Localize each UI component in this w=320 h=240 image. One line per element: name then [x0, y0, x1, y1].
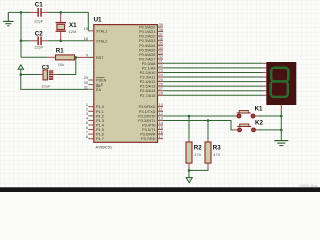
- wire K2 to ground rail: [258, 129, 281, 131]
- wire P3.3 to K2 (with jog): [163, 121, 233, 130]
- svg-text:C1: C1: [35, 1, 43, 8]
- value 10uF (C3): [41, 84, 51, 89]
- capacitor C3 (electrolytic): [40, 70, 57, 80]
- wire ground rail to R1: [21, 56, 48, 58]
- node junction C1/X1 (65,12.4): [59, 11, 62, 14]
- push button K2: [233, 124, 258, 132]
- svg-text:P3.2/INT0: P3.2/INT0: [138, 114, 155, 118]
- node junction C2/X1 (60.7,40.8): [59, 40, 62, 43]
- capacitor C2: [30, 37, 48, 46]
- svg-text:P0.2/AD2: P0.2/AD2: [139, 35, 155, 39]
- svg-text:12M: 12M: [69, 29, 77, 34]
- svg-text:R3: R3: [213, 144, 221, 151]
- svg-text:3: 3: [86, 112, 88, 116]
- svg-text:P2.3/A11: P2.3/A11: [140, 76, 155, 80]
- node junction R1/C3 (75.8,57.4): [75, 56, 78, 59]
- svg-text:XTAL1: XTAL1: [96, 29, 107, 33]
- svg-text:X1: X1: [69, 22, 77, 29]
- wire P3.2 to K1: [163, 115, 235, 117]
- svg-text:38: 38: [159, 28, 163, 32]
- svg-text:P1.4: P1.4: [96, 123, 104, 127]
- U1 left pin numbers: [84, 27, 88, 139]
- power symbol VCC (arrow up): [18, 65, 23, 75]
- svg-text:17: 17: [159, 135, 163, 139]
- wire vertical ground rail x=21: [20, 12, 22, 57]
- svg-text:2: 2: [86, 107, 88, 111]
- wire K1 to ground rail: [258, 115, 282, 117]
- 7-segment digit segments: [271, 68, 289, 97]
- value 470 (R3): [213, 152, 220, 157]
- resistor R3: [205, 139, 211, 168]
- svg-text:AT89C51: AT89C51: [96, 144, 113, 149]
- label C1: [35, 1, 43, 8]
- svg-text:36: 36: [159, 37, 163, 41]
- svg-text:R1: R1: [56, 48, 64, 55]
- node junction VCC/C3 (20.8,74.5): [20, 73, 23, 76]
- label AT89C51: [96, 144, 113, 149]
- IC U1 AT89C51 body: [94, 25, 158, 143]
- svg-text:4: 4: [86, 117, 88, 121]
- node junction at (21,40.8): [20, 40, 23, 43]
- svg-text:37: 37: [159, 32, 163, 36]
- svg-text:P3.3/INT1: P3.3/INT1: [138, 119, 155, 123]
- svg-text:21: 21: [159, 60, 163, 64]
- svg-text:P2.4/A12: P2.4/A12: [140, 80, 156, 84]
- svg-text:22pF: 22pF: [34, 19, 44, 24]
- svg-text:16: 16: [159, 130, 163, 134]
- svg-text:14: 14: [159, 121, 163, 125]
- svg-text:6: 6: [86, 126, 88, 130]
- svg-text:33: 33: [159, 51, 163, 55]
- svg-text:ALE: ALE: [96, 83, 104, 87]
- value 12M (X1): [69, 29, 77, 34]
- svg-text:P1.7: P1.7: [96, 137, 104, 141]
- svg-text:P0.5/AD5: P0.5/AD5: [139, 48, 155, 52]
- svg-text:P2.7/A15: P2.7/A15: [140, 94, 156, 98]
- display common pin to ground: [280, 105, 282, 140]
- wire C2 left stub rail: [21, 40, 30, 42]
- ground (bottom-right): [274, 141, 288, 146]
- value 22pF (C2): [34, 44, 44, 49]
- svg-text:10: 10: [159, 103, 163, 107]
- svg-text:P1.6: P1.6: [96, 133, 104, 137]
- wire R2 bottom to ground arrow: [188, 168, 190, 177]
- svg-text:35: 35: [159, 41, 163, 45]
- svg-text:30: 30: [84, 81, 88, 85]
- wire C2 right to XTAL2: [48, 40, 89, 42]
- svg-text:P3.0/RXD: P3.0/RXD: [139, 105, 156, 109]
- svg-text:C2: C2: [35, 31, 43, 38]
- svg-text:29: 29: [84, 76, 88, 80]
- svg-text:18: 18: [84, 37, 88, 41]
- svg-text:K1: K1: [255, 106, 263, 113]
- svg-text:22pF: 22pF: [34, 44, 44, 49]
- svg-text:26: 26: [159, 82, 163, 86]
- svg-text:P0.0/AD0: P0.0/AD0: [139, 26, 155, 30]
- svg-text:39: 39: [159, 23, 163, 27]
- svg-text:P1.0: P1.0: [96, 105, 104, 109]
- svg-text:P2.6/A14: P2.6/A14: [140, 89, 156, 93]
- wire VCC down to EA: [21, 75, 89, 90]
- node junction K1/ground rail: [280, 115, 283, 118]
- label R3: [213, 144, 221, 151]
- wire VCC junction to C3 left: [21, 74, 40, 76]
- svg-text:19: 19: [84, 27, 88, 31]
- label K1: [255, 106, 263, 113]
- label K2: [255, 120, 263, 127]
- svg-text:P0.4/AD4: P0.4/AD4: [139, 44, 155, 48]
- svg-text:XTAL2: XTAL2: [96, 39, 107, 43]
- svg-text:RST: RST: [96, 56, 104, 60]
- wire C1 right to XTAL1 corner: [48, 12, 88, 30]
- wire R1 junction down to C3: [57, 57, 76, 74]
- svg-text:470: 470: [213, 152, 220, 157]
- svg-text:P0.6/AD6: P0.6/AD6: [139, 53, 155, 57]
- svg-text:P0.1/AD1: P0.1/AD1: [139, 30, 155, 34]
- display pin stubs: [263, 63, 267, 95]
- U1 right pin labels: [138, 26, 155, 142]
- label U1: [94, 16, 102, 23]
- svg-text:P2.2/A10: P2.2/A10: [140, 71, 156, 75]
- svg-text:P3.5/T1: P3.5/T1: [142, 128, 155, 132]
- svg-text:PSEN: PSEN: [96, 79, 107, 83]
- svg-text:27: 27: [159, 87, 163, 91]
- svg-text:P0.3/AD3: P0.3/AD3: [139, 39, 155, 43]
- svg-text:23: 23: [159, 69, 163, 73]
- wire R2 branch down: [188, 116, 190, 139]
- ground (arrow below R2): [186, 178, 192, 183]
- value 10k (R1): [58, 62, 64, 67]
- svg-text:1: 1: [86, 103, 88, 107]
- U1 left pin labels: [96, 29, 107, 141]
- svg-text:K2: K2: [255, 120, 263, 127]
- node junction (189,170.4): [188, 169, 191, 172]
- 7-segment display body: [266, 62, 296, 105]
- svg-text:P3.1/TXD: P3.1/TXD: [139, 110, 156, 114]
- watermark text: [299, 184, 318, 188]
- resistor R2: [186, 139, 192, 168]
- label R1: [56, 48, 64, 55]
- U1 right pin stubs: [158, 27, 164, 139]
- label R2: [194, 144, 202, 151]
- svg-text:P2.0/A8: P2.0/A8: [142, 62, 156, 66]
- svg-text:R2: R2: [194, 144, 202, 151]
- U1 right pin numbers: [159, 23, 163, 139]
- capacitor C1: [30, 8, 48, 17]
- black bottom bar: [0, 187, 320, 192]
- svg-text:U1: U1: [94, 16, 102, 23]
- svg-text:8: 8: [86, 135, 88, 139]
- ground (top-left): [3, 12, 13, 25]
- node junction R3 branch (208,120.5): [207, 119, 210, 122]
- svg-text:34: 34: [159, 46, 163, 50]
- U1 left pin stubs: [88, 31, 94, 139]
- push button K1: [235, 111, 258, 119]
- wire R3 branch down: [207, 121, 209, 140]
- svg-text:P1.1: P1.1: [96, 110, 104, 114]
- svg-text:12: 12: [159, 112, 163, 116]
- crystal X1: [56, 13, 66, 40]
- node junction R2 branch (189,116): [188, 115, 191, 118]
- svg-text:31: 31: [84, 86, 88, 90]
- svg-text:10k: 10k: [58, 62, 64, 67]
- svg-text:9: 9: [86, 54, 88, 58]
- value 470 (R2): [194, 152, 201, 157]
- svg-text:470: 470: [194, 152, 201, 157]
- svg-text:13: 13: [159, 117, 163, 121]
- svg-text:P3.7/RD: P3.7/RD: [141, 137, 156, 141]
- label X1: [69, 22, 77, 29]
- label C2: [35, 31, 43, 38]
- wires P2.0-P2.7 to display: [163, 63, 263, 95]
- value 22pF (C1): [34, 19, 44, 24]
- wire GND to C1 (net XTAL1 top rail): [8, 11, 30, 13]
- svg-text:11: 11: [159, 107, 163, 111]
- svg-text:C3: C3: [42, 65, 49, 71]
- svg-text:P3.4/T0: P3.4/T0: [142, 123, 155, 127]
- svg-text:CSDN @yq: CSDN @yq: [299, 184, 318, 188]
- svg-text:P2.5/A13: P2.5/A13: [140, 85, 156, 89]
- svg-text:P1.3: P1.3: [96, 119, 104, 123]
- svg-text:15: 15: [159, 126, 163, 130]
- wire R3 bottom to R2 bottom: [189, 168, 208, 170]
- svg-text:25: 25: [159, 78, 163, 82]
- svg-text:10uF: 10uF: [41, 84, 51, 89]
- svg-text:7: 7: [86, 130, 88, 134]
- label C3: [42, 65, 49, 71]
- svg-text:P1.5: P1.5: [96, 128, 104, 132]
- svg-text:24: 24: [159, 73, 163, 77]
- svg-text:P3.6/WR: P3.6/WR: [140, 133, 155, 137]
- svg-text:EA: EA: [96, 88, 102, 92]
- svg-text:P1.2: P1.2: [96, 114, 104, 118]
- svg-text:28: 28: [159, 91, 163, 95]
- node junction K2/ground rail: [280, 129, 283, 132]
- node junction at (21,12.4): [20, 11, 23, 14]
- svg-text:22: 22: [159, 64, 163, 68]
- svg-text:5: 5: [86, 121, 88, 125]
- svg-text:P2.1/A9: P2.1/A9: [142, 66, 156, 70]
- resistor R1: [48, 55, 94, 60]
